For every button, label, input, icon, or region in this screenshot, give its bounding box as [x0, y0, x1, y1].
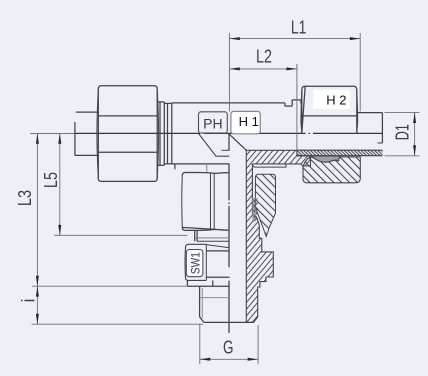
svg-text:H 1: H 1: [239, 114, 259, 129]
svg-text:L2: L2: [256, 47, 272, 67]
svg-text:H 2: H 2: [326, 92, 346, 107]
svg-text:L5: L5: [41, 172, 61, 188]
svg-text:L3: L3: [15, 190, 35, 206]
svg-text:i: i: [19, 299, 39, 303]
svg-text:SW1: SW1: [190, 252, 202, 274]
svg-text:D1: D1: [393, 124, 413, 140]
svg-text:L1: L1: [291, 17, 307, 37]
svg-text:G: G: [223, 337, 234, 357]
svg-text:PH: PH: [203, 116, 222, 132]
